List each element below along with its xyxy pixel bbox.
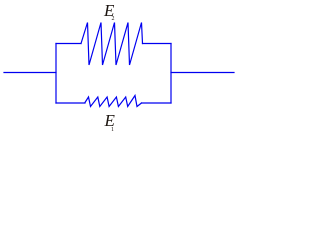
resistor E2 <box>81 23 143 66</box>
wire left lead <box>4 72 56 74</box>
wire right vertical <box>170 44 172 104</box>
wire left vertical <box>55 44 57 104</box>
resistor E1 <box>85 96 142 107</box>
label E2 subscript 2 <box>112 16 115 22</box>
wire top-right segment <box>143 43 172 45</box>
wire top-left segment <box>56 43 81 45</box>
wire right lead <box>171 72 234 74</box>
wire bottom-left segment <box>56 102 85 104</box>
wire bottom-right segment <box>142 102 172 104</box>
label E2 <box>104 2 114 19</box>
label E1 <box>105 112 115 129</box>
label E1 subscript 1 <box>111 127 114 133</box>
